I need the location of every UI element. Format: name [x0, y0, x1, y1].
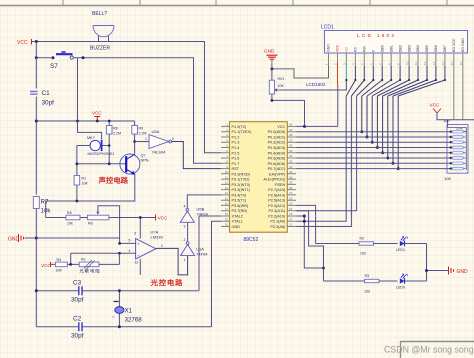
- node base/R8: [108, 162, 111, 165]
- svg-text:25: 25: [289, 202, 293, 206]
- svg-text:ALE/(PROG): ALE/(PROG): [263, 178, 286, 182]
- wire VCC rail to buzzer and P1.5 corner: [32, 42, 221, 153]
- svg-text:30pf: 30pf: [42, 100, 55, 107]
- comparator U?A LM339: [129, 216, 164, 275]
- svg-text:LCD1: LCD1: [321, 25, 334, 31]
- svg-text:VCC: VCC: [277, 125, 285, 129]
- svg-text:30: 30: [289, 175, 293, 179]
- svg-text:18: 18: [225, 212, 229, 216]
- svg-text:P3.1(TXD): P3.1(TXD): [232, 178, 251, 182]
- svg-text:39: 39: [289, 128, 293, 132]
- svg-text:P1.7: P1.7: [232, 162, 240, 166]
- inverter U5B 74F04: [180, 204, 208, 228]
- svg-text:15: 15: [225, 196, 229, 200]
- svg-text:16: 16: [225, 202, 229, 206]
- svg-text:EA/(VPP): EA/(VPP): [269, 172, 286, 176]
- svg-text:33: 33: [289, 160, 293, 164]
- svg-text:DB2: DB2: [398, 45, 402, 52]
- svg-text:P0.7(AD7): P0.7(AD7): [268, 167, 286, 171]
- wire LED common to ground: [427, 244, 449, 282]
- svg-text:2.2M: 2.2M: [139, 132, 147, 136]
- svg-text:RST: RST: [232, 167, 240, 171]
- power ground GND (above RV1): [264, 49, 277, 62]
- wire BG pins to VCC rail: [454, 66, 463, 120]
- wire comparator minus input: [71, 253, 136, 264]
- svg-text:11: 11: [225, 175, 228, 179]
- svg-text:P1.2: P1.2: [232, 136, 240, 140]
- svg-text:3: 3: [184, 224, 186, 228]
- svg-text:VCC: VCC: [17, 40, 28, 46]
- svg-text:P2.3(A11): P2.3(A11): [268, 209, 286, 213]
- node P2.2 junction: [303, 215, 306, 218]
- svg-text:P0.1(AD1): P0.1(AD1): [268, 136, 286, 140]
- svg-text:P2.7(A15): P2.7(A15): [268, 188, 286, 192]
- svg-text:P1.3: P1.3: [232, 141, 240, 145]
- wire VCC to RP common and right edge: [437, 113, 474, 128]
- inverter U1A 74F04: [181, 238, 209, 262]
- wire comparator plus input: [120, 242, 136, 244]
- svg-text:2: 2: [172, 137, 174, 141]
- svg-text:LED0: LED0: [396, 285, 405, 289]
- svg-text:P3.4(T0): P3.4(T0): [232, 193, 248, 197]
- svg-text:R6: R6: [88, 222, 93, 226]
- svg-text:P3.2(INT0): P3.2(INT0): [232, 183, 251, 187]
- svg-text:27: 27: [289, 191, 293, 195]
- capacitor C3: [35, 280, 199, 304]
- svg-text:C1: C1: [42, 90, 51, 97]
- svg-text:R5: R5: [67, 211, 72, 215]
- data verticals to P0 rows: [362, 96, 398, 169]
- wire switch to P1.7 corner: [73, 58, 221, 164]
- svg-text:LED1: LED1: [396, 248, 405, 252]
- svg-text:XTAL1: XTAL1: [232, 220, 243, 224]
- svg-text:10K: 10K: [278, 84, 285, 88]
- svg-text:2: 2: [161, 244, 163, 248]
- svg-text:32: 32: [289, 165, 293, 169]
- svg-text:DB3: DB3: [407, 45, 411, 52]
- svg-text:C2: C2: [73, 316, 82, 323]
- label voice control circuit: [99, 177, 106, 184]
- svg-text:20: 20: [225, 223, 229, 227]
- wire ground row to comparator plus input: [36, 238, 119, 243]
- svg-text:U5A: U5A: [152, 129, 160, 134]
- svg-text:P0.5(AD5): P0.5(AD5): [268, 157, 286, 161]
- svg-text:X1: X1: [125, 308, 133, 315]
- wire collector to U5A input: [134, 142, 136, 155]
- wire C1 row to switch branch: [36, 120, 134, 122]
- svg-text:RP: RP: [444, 119, 450, 124]
- MCU right pin numbers: [289, 123, 293, 227]
- svg-text:31: 31: [289, 170, 293, 174]
- wire P2.2/P2.1 to LED ground: [296, 216, 323, 268]
- MCU left pin names: [232, 125, 253, 229]
- wire VO to RV1 wiper: [279, 80, 346, 90]
- svg-text:VO: VO: [345, 47, 349, 52]
- resistor R3: [364, 274, 398, 294]
- svg-text:VCC: VCC: [336, 44, 340, 52]
- svg-text:10K: 10K: [56, 269, 63, 273]
- svg-text:10K: 10K: [82, 182, 89, 186]
- ic U? 89C52 body: [230, 122, 288, 243]
- svg-text:28: 28: [289, 186, 293, 190]
- svg-text:RW: RW: [363, 46, 367, 52]
- svg-text:4: 4: [184, 204, 186, 208]
- svg-text:NPN: NPN: [141, 159, 149, 163]
- svg-text:29: 29: [289, 181, 293, 185]
- node minus input / photoresistor column: [118, 252, 121, 255]
- svg-text:P2.6(A14): P2.6(A14): [268, 193, 286, 197]
- svg-text:GND: GND: [327, 44, 331, 52]
- svg-text:36: 36: [289, 144, 293, 148]
- svg-text:22: 22: [289, 217, 293, 221]
- potentiometer RV1: [269, 63, 304, 127]
- svg-text:VCC: VCC: [430, 103, 440, 108]
- wire LED1 row: [316, 243, 359, 245]
- LCD pin verticals to bend row: [355, 66, 445, 80]
- svg-text:BELL?: BELL?: [92, 11, 107, 17]
- svg-text:P2.2(A10): P2.2(A10): [268, 215, 286, 219]
- power ground GND (left): [8, 234, 36, 243]
- capacitor C1: [30, 90, 54, 107]
- svg-text:DB6: DB6: [434, 45, 438, 52]
- svg-text:BUZZER: BUZZER: [90, 46, 110, 52]
- svg-text:DB4: DB4: [416, 45, 420, 52]
- svg-text:16: 16: [459, 61, 463, 65]
- LCD pin names (vertical): [327, 38, 465, 52]
- svg-text:3: 3: [134, 232, 136, 236]
- resistor pack RP 10K: [444, 119, 468, 182]
- wire C2 row to XTAL1: [212, 221, 222, 327]
- svg-text:37: 37: [289, 138, 293, 142]
- svg-text:4: 4: [129, 249, 131, 253]
- label light control circuit: [151, 279, 158, 286]
- svg-text:P3.3(INT1): P3.3(INT1): [232, 188, 251, 192]
- wire mic left to R1 / base wire: [77, 146, 126, 202]
- capacitor C2: [36, 316, 211, 340]
- svg-text:17: 17: [225, 207, 229, 211]
- svg-text:VCC: VCC: [41, 263, 51, 268]
- node P2.1 junction: [303, 220, 306, 223]
- node R4 / photoresistor junction: [69, 263, 72, 266]
- svg-text:P0.0(AD0): P0.0(AD0): [268, 130, 286, 134]
- node plus input: [118, 242, 121, 245]
- svg-text:P1.1(T2EX): P1.1(T2EX): [232, 130, 253, 134]
- svg-text:14: 14: [225, 191, 229, 195]
- svg-text:−: −: [137, 253, 140, 258]
- svg-text:24: 24: [289, 207, 293, 211]
- svg-text:Rs: Rs: [81, 258, 86, 262]
- svg-text:74F04: 74F04: [196, 252, 208, 257]
- svg-text:12: 12: [135, 261, 139, 265]
- svg-text:MICROPHONE1: MICROPHONE1: [88, 152, 115, 156]
- wire LCD pin3 VO colored segment: [345, 62, 347, 80]
- svg-text:1: 1: [184, 258, 186, 262]
- node collector/R9/U5A: [133, 140, 136, 143]
- wire left rail: [35, 58, 37, 327]
- svg-text:14: 14: [441, 61, 445, 65]
- wire P2.4 to LED1 feed: [296, 205, 316, 243]
- node switch output branch: [82, 56, 85, 59]
- svg-text:P1.4: P1.4: [232, 146, 240, 150]
- node VCC pin40 junction: [303, 125, 306, 128]
- svg-text:P2.5(A13): P2.5(A13): [268, 199, 286, 203]
- node LED ground junction: [425, 269, 428, 272]
- svg-text:CSDN @Mr song song: CSDN @Mr song song: [384, 345, 474, 355]
- svg-text:P2.4(A12): P2.4(A12): [268, 204, 286, 208]
- svg-text:5: 5: [129, 239, 131, 243]
- svg-text:P3.6(WR): P3.6(WR): [232, 204, 249, 208]
- svg-text:34: 34: [289, 154, 293, 158]
- wire LCD pin2 to MCU pin40: [296, 85, 338, 126]
- svg-text:BG VCC: BG VCC: [452, 38, 456, 52]
- svg-text:P3.0(RXD): P3.0(RXD): [232, 172, 251, 176]
- svg-text:LM339: LM339: [151, 235, 164, 240]
- wire U1A output to U5B input: [187, 222, 189, 241]
- wire LCD pin2 VCC colored segment: [337, 62, 339, 85]
- svg-text:15: 15: [450, 61, 454, 65]
- wire P0 rows to RP: [296, 132, 452, 169]
- power port VCC (top left): [17, 39, 32, 46]
- svg-text:2: 2: [184, 238, 186, 242]
- LCD pin stubs: [329, 53, 463, 66]
- resistor R1: [74, 176, 88, 186]
- svg-text:P0.3(AD3): P0.3(AD3): [268, 146, 286, 150]
- microphone MK?: [77, 121, 114, 156]
- node C1 rail junction: [35, 120, 38, 123]
- wire U5B output to P3.4: [187, 195, 221, 209]
- wire comparator output chain: [156, 248, 188, 275]
- svg-text:12: 12: [423, 61, 427, 65]
- wire LCD pin1 GND route: [272, 66, 329, 78]
- resistor R9: [132, 121, 147, 142]
- svg-text:R2: R2: [360, 237, 365, 241]
- resistor R5: [46, 211, 88, 226]
- svg-text:10: 10: [405, 61, 409, 65]
- wire branch down from switch row: [77, 58, 79, 121]
- wire VCC to switch row: [35, 42, 37, 58]
- buzzer BELL?: [90, 11, 114, 52]
- svg-text:GND: GND: [457, 269, 469, 275]
- svg-text:R9: R9: [139, 127, 144, 131]
- power port VCC (mic rail): [92, 111, 102, 121]
- svg-text:C3: C3: [73, 280, 82, 287]
- svg-text:DB1: DB1: [389, 45, 393, 52]
- control verticals to P2 pins: [296, 96, 357, 227]
- svg-text:89C52: 89C52: [244, 237, 259, 243]
- svg-text:R3: R3: [365, 274, 370, 278]
- wire photoresistor row right end up: [118, 253, 120, 264]
- svg-text:R7: R7: [41, 199, 49, 206]
- lcd module LCD1 body: [321, 25, 468, 54]
- svg-text:LCD1602: LCD1602: [306, 82, 326, 87]
- svg-text:P2.0(A8): P2.0(A8): [270, 225, 286, 229]
- LCD pin numbers (vertical): [325, 61, 463, 65]
- node ground rail junction: [35, 237, 38, 240]
- wire P2.3 to LED0 feed: [296, 211, 323, 281]
- svg-text:10k: 10k: [67, 222, 73, 226]
- svg-text:VCC: VCC: [158, 216, 168, 221]
- node GND branch: [270, 67, 273, 70]
- svg-text:10: 10: [225, 170, 229, 174]
- svg-text:13: 13: [225, 186, 229, 190]
- bend nodes: [345, 79, 446, 81]
- node VCC tap: [96, 120, 99, 123]
- svg-text:+: +: [137, 242, 140, 247]
- svg-text:Q?: Q?: [141, 154, 146, 158]
- MCU right pin stubs: [287, 126, 296, 226]
- svg-text:12: 12: [225, 181, 229, 185]
- svg-text:RV1: RV1: [278, 77, 285, 81]
- svg-text:38: 38: [289, 133, 293, 137]
- resistor R4: [51, 258, 79, 273]
- svg-text:XTAL2: XTAL2: [232, 215, 243, 219]
- svg-text:40: 40: [289, 123, 293, 127]
- svg-text:R8: R8: [113, 127, 118, 131]
- svg-text:30pf: 30pf: [71, 333, 84, 340]
- svg-text:DB7: DB7: [443, 45, 447, 52]
- power ground GND (right): [449, 267, 469, 275]
- resistor R8: [106, 120, 121, 164]
- node emitter rail / R1: [76, 200, 79, 203]
- svg-text:RS: RS: [354, 46, 358, 52]
- crystal X1 32768: [112, 289, 142, 328]
- svg-text:32768: 32768: [125, 317, 143, 324]
- svg-text:P1.0(T2): P1.0(T2): [232, 125, 248, 129]
- power port VCC (pull-up): [430, 103, 442, 114]
- svg-text:BG GND: BG GND: [461, 38, 465, 52]
- svg-text:VCC: VCC: [92, 111, 102, 116]
- switch S7: [35, 52, 74, 70]
- power port VCC (divider): [156, 215, 168, 221]
- svg-text:P3.5(T1): P3.5(T1): [232, 199, 248, 203]
- resistor R2: [359, 237, 398, 256]
- svg-text:R4: R4: [57, 258, 62, 262]
- led LED0: [396, 274, 427, 289]
- svg-text:23: 23: [289, 212, 293, 216]
- svg-text:2.2M: 2.2M: [113, 132, 121, 136]
- svg-text:21: 21: [289, 223, 293, 227]
- power port VCC (photo row): [41, 262, 51, 268]
- node base/mic column: [76, 162, 79, 165]
- svg-text:GND: GND: [232, 225, 241, 229]
- svg-text:100: 100: [360, 252, 366, 256]
- svg-text:P0.4(AD4): P0.4(AD4): [268, 151, 286, 155]
- svg-text:MK?: MK?: [87, 136, 95, 140]
- svg-text:P1.6: P1.6: [232, 157, 240, 161]
- node VCC/S7 junction: [35, 40, 38, 43]
- svg-text:GND: GND: [8, 237, 20, 243]
- svg-text:26: 26: [289, 196, 293, 200]
- node switch branch on mic rail: [76, 120, 79, 123]
- wire U5A output to RST: [172, 142, 221, 169]
- resistor R7: [33, 197, 51, 215]
- svg-text:19: 19: [225, 217, 229, 221]
- MCU left pin numbers: [225, 123, 229, 227]
- potentiometer R6: [87, 206, 155, 238]
- inverter U5A 74LS04: [135, 129, 174, 155]
- led LED1: [396, 237, 427, 252]
- wire LED0 row: [324, 280, 365, 282]
- svg-text:LCD 1602: LCD 1602: [357, 33, 396, 39]
- svg-text:GND: GND: [264, 49, 275, 54]
- svg-text:S7: S7: [50, 63, 58, 70]
- data junction dots on P0 rows: [360, 130, 399, 170]
- svg-text:DB0: DB0: [380, 45, 384, 52]
- wire jog diagonals: [346, 80, 445, 96]
- svg-text:P1.5: P1.5: [232, 151, 240, 155]
- svg-text:10K: 10K: [444, 176, 451, 181]
- svg-text:P2.1(A9): P2.1(A9): [270, 220, 286, 224]
- svg-text:R1: R1: [82, 177, 87, 181]
- title block corner: [400, 342, 474, 358]
- svg-text:PSEN: PSEN: [275, 183, 286, 187]
- photoresistor Rs: [79, 258, 119, 273]
- svg-text:30pf: 30pf: [71, 297, 84, 304]
- transistor Q? NPN: [120, 154, 149, 175]
- svg-text:1: 1: [145, 137, 147, 141]
- svg-text:11: 11: [414, 62, 418, 65]
- svg-text:35: 35: [289, 149, 293, 153]
- svg-text:13: 13: [432, 61, 436, 65]
- svg-text:74LS04: 74LS04: [152, 150, 167, 155]
- sheet border top: [0, 0, 474, 6]
- wire C3 row to XTAL2: [199, 216, 221, 291]
- svg-text:P0.6(AD6): P0.6(AD6): [268, 162, 286, 166]
- svg-text:P3.7(RD): P3.7(RD): [232, 209, 249, 213]
- wire emitter rail: [46, 174, 135, 217]
- svg-text:DB5: DB5: [425, 45, 429, 52]
- svg-text:100: 100: [364, 290, 370, 294]
- svg-text:~: ~: [112, 315, 115, 320]
- MCU right pin names: [263, 125, 286, 229]
- MCU left pin stubs: [221, 126, 230, 226]
- svg-text:P0.2(AD2): P0.2(AD2): [268, 141, 286, 145]
